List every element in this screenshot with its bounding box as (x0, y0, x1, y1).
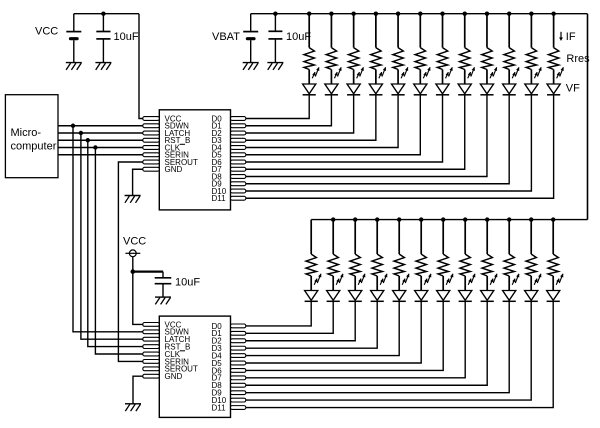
junction micro LATCH branch (79, 131, 83, 135)
wire micro to U1 LATCH (58, 132, 143, 134)
junction rail2 / column 20 (bottom bank) (463, 217, 467, 221)
resistor R22 (Rres) (504, 254, 514, 276)
junction rail2 / column 16 (bottom bank) (375, 217, 379, 221)
wire micro to U1 SERIN (58, 154, 143, 156)
pin U2.D3 (231, 346, 246, 350)
wire R9 to LED9 (486, 70, 488, 85)
pin U2.CLK (143, 352, 160, 356)
wire LED11 cathode to U1 D10 (246, 95, 532, 191)
resistor R19 (Rres) (438, 254, 448, 276)
wire R5 to LED5 (397, 70, 399, 85)
svg-text:10uF: 10uF (175, 276, 200, 288)
svg-text:computer: computer (11, 141, 57, 153)
wire LED23 cathode to U2 D10 (246, 301, 531, 400)
wire rail to C1 (102, 14, 104, 32)
resistor R9 (Rres) (482, 48, 492, 70)
svg-text:Micro-: Micro- (11, 127, 42, 139)
ground B2 (243, 63, 259, 70)
wire C3 to ground (162, 284, 164, 297)
wire rail2 to R23 (530, 220, 532, 255)
wire rail2 to R13 (310, 220, 312, 255)
pin U1.D11 (231, 196, 246, 200)
wire R16 to LED16 (376, 276, 378, 291)
wire R10 to LED10 (508, 70, 510, 85)
resistor R10 (Rres) (504, 48, 514, 70)
svg-text:VCC: VCC (35, 26, 58, 38)
resistor R21 (Rres) (482, 254, 492, 276)
pin U2.D8 (231, 383, 246, 387)
svg-text:IF: IF (566, 31, 576, 43)
ground B1 (66, 63, 82, 70)
wire LED9 cathode to U1 D8 (246, 95, 487, 177)
pin U2.D6 (231, 369, 246, 373)
junction rail / column 8 (top bank) (463, 12, 467, 16)
LED D4 (top bank) (369, 67, 386, 95)
wire LED3 cathode to U1 D2 (246, 95, 354, 133)
wire R11 to LED11 (530, 70, 532, 85)
capacitor C1 10uF (96, 32, 110, 39)
wire rail2 to R14 (332, 220, 334, 255)
wire R3 to LED3 (353, 70, 355, 85)
wire rail to R10 (508, 14, 510, 48)
svg-text:D11: D11 (212, 403, 227, 412)
wire rail2 to R16 (376, 220, 378, 255)
junction rail2 / column 14 (bottom bank) (331, 217, 335, 221)
resistor R12 (Rres) (548, 48, 558, 70)
wire VCC terminal to junction (132, 257, 134, 272)
junction rail2 / column 24 (bottom bank) (551, 217, 555, 221)
junction rail2 / column 18 (bottom bank) (419, 217, 423, 221)
wire rail2 to R15 (354, 220, 356, 255)
junction rail / column 9 (top bank) (485, 12, 489, 16)
resistor R16 (Rres) (372, 254, 382, 276)
wire micro LATCH to U2 LATCH (81, 133, 143, 339)
terminal VCC (U2) (125, 250, 140, 257)
wire LED18 cathode to U2 D5 (246, 301, 421, 363)
pin U1.SEROUT (143, 160, 160, 164)
ground C1 (95, 63, 111, 70)
wire R7 to LED7 (442, 70, 444, 85)
wire LED6 cathode to U1 D5 (246, 95, 420, 155)
resistor R20 (Rres) (460, 254, 470, 276)
wire rail to R8 (464, 14, 466, 48)
junction at VCC rail / C1 (101, 12, 105, 16)
junction micro CLK branch (93, 145, 97, 149)
pin U1.D9 (231, 182, 246, 186)
wire micro to U1 CLK (58, 147, 143, 149)
LED D17 (bottom bank) (393, 274, 410, 302)
wire to C3 top plate (162, 272, 164, 278)
wire micro to U1 SDWN (58, 125, 143, 127)
ground C3 (155, 297, 171, 304)
ground U1 (125, 196, 141, 203)
wire U1 GND to ground (133, 169, 143, 195)
resistor R7 (Rres) (437, 48, 447, 70)
wire LED14 cathode to U2 D1 (246, 301, 333, 333)
LED D2 (top bank) (325, 67, 342, 95)
LED D13 (bottom bank) (305, 274, 322, 302)
junction rail / column 2 (top bank) (329, 12, 333, 16)
LED D15 (bottom bank) (349, 274, 366, 302)
junction rail / column 11 (top bank) (529, 12, 533, 16)
pin U2.SDWN (143, 330, 160, 334)
svg-text:VBAT: VBAT (212, 31, 240, 43)
wire R15 to LED15 (354, 276, 356, 291)
capacitor C2 10uF (268, 31, 282, 39)
wire LED17 cathode to U2 D4 (246, 301, 399, 355)
pin U1.GND (143, 167, 160, 171)
ground C2 (267, 63, 283, 70)
wire LED13 cathode to U2 D0 (246, 301, 311, 326)
driver IC U1 body (159, 110, 230, 210)
LED D5 (top bank) (391, 67, 408, 95)
pin U2.SERIN (143, 360, 160, 364)
svg-text:VCC: VCC (123, 235, 146, 247)
wire R2 to LED2 (330, 70, 332, 85)
pin U2.LATCH (143, 337, 160, 341)
wire rail2 to R19 (442, 220, 444, 255)
wire junction to C3 (133, 271, 163, 273)
wire micro to U1 RST_B (58, 139, 143, 141)
svg-text:Rres: Rres (566, 53, 590, 65)
LED D19 (bottom bank) (437, 274, 454, 302)
capacitor C3 10uF (155, 278, 172, 284)
resistor R8 (Rres) (460, 48, 470, 70)
junction rail / column 1 (top bank) (307, 12, 311, 16)
wire LED20 cathode to U2 D7 (246, 301, 465, 378)
resistor R13 (Rres) (306, 254, 316, 276)
svg-text:10uF: 10uF (114, 31, 139, 43)
junction rail / column 12 (top bank) (551, 12, 555, 16)
resistor R11 (Rres) (526, 48, 536, 70)
overline mark on U2 CLK (180, 350, 185, 352)
wire U1 SEROUT to U2 SERIN (118, 162, 142, 361)
pin U1.D6 (231, 160, 246, 164)
LED D10 (top bank) (503, 67, 520, 95)
junction rail / column 7 (top bank) (440, 12, 444, 16)
LED D1 (top bank) (303, 67, 320, 95)
pin U2.D7 (231, 376, 246, 380)
svg-text:D11: D11 (212, 194, 227, 203)
wire LED7 cathode to U1 D6 (246, 95, 443, 162)
wire LED16 cathode to U2 D3 (246, 301, 377, 348)
junction rail2 / column 17 (bottom bank) (397, 217, 401, 221)
wire R23 to LED23 (530, 276, 532, 291)
pin U2.D10 (231, 398, 246, 402)
wire VCC rail top-left (74, 13, 139, 15)
wire rail to R3 (353, 14, 355, 48)
ground U2 (125, 404, 141, 411)
LED D11 (top bank) (525, 67, 542, 95)
pin U2.GND (143, 374, 160, 378)
junction rail2 / column 15 (bottom bank) (353, 217, 357, 221)
junction VBAT rail / C2 (273, 12, 277, 16)
wire R22 to LED22 (508, 276, 510, 291)
pin U1.RST_B (143, 138, 160, 142)
resistor R15 (Rres) (350, 254, 360, 276)
resistor R3 (Rres) (348, 48, 358, 70)
pin U1.D7 (231, 167, 246, 171)
wire R19 to LED19 (442, 276, 444, 291)
wire rail to R6 (419, 14, 421, 48)
resistor R17 (Rres) (394, 254, 404, 276)
LED D12 (top bank) (547, 67, 564, 95)
pin U2.D0 (231, 324, 246, 328)
wire LED10 cathode to U1 D9 (246, 95, 509, 184)
LED D23 (bottom bank) (525, 274, 542, 302)
LED D14 (bottom bank) (327, 274, 344, 302)
junction rail2 / column 22 (bottom bank) (507, 217, 511, 221)
wire C1 to ground (102, 39, 104, 63)
overline mark on U1 CLK (180, 143, 185, 145)
pin U1.VCC (143, 117, 160, 121)
wire R1 to LED1 (308, 70, 310, 85)
wire rail to R4 (375, 14, 377, 48)
pin U1.D2 (231, 131, 246, 135)
junction rail2 / column 21 (bottom bank) (485, 217, 489, 221)
pin U2.D11 (231, 406, 246, 410)
resistor R23 (Rres) (526, 254, 536, 276)
wire rail to R5 (397, 14, 399, 48)
LED D16 (bottom bank) (371, 274, 388, 302)
junction rail / column 6 (top bank) (418, 12, 422, 16)
wire LED5 cathode to U1 D4 (246, 95, 398, 148)
wire LED21 cathode to U2 D8 (246, 301, 487, 385)
wire B1 to ground (73, 40, 75, 62)
wire VBAT rail (251, 13, 588, 15)
junction rail / column 3 (top bank) (351, 12, 355, 16)
wire rail to R2 (330, 14, 332, 48)
wire rail to C2 (274, 14, 276, 32)
pin U2.D2 (231, 339, 246, 343)
wire R6 to LED6 (419, 70, 421, 85)
resistor R14 (Rres) (328, 254, 338, 276)
junction VCC / C3 (131, 269, 136, 274)
wire rail to R7 (442, 14, 444, 48)
wire rail to R9 (486, 14, 488, 48)
wire micro CLK to U2 CLK (95, 148, 142, 355)
wire R21 to LED21 (486, 276, 488, 291)
LED D18 (bottom bank) (415, 274, 432, 302)
pin U1.SERIN (143, 153, 160, 157)
pin U2.D5 (231, 361, 246, 365)
pin U1.D8 (231, 175, 246, 179)
wire rail2 to R24 (552, 220, 554, 255)
resistor R2 (Rres) (326, 48, 336, 70)
LED D21 (bottom bank) (481, 274, 498, 302)
wire R12 to LED12 (553, 70, 555, 85)
wire VBAT rail right-edge drop (587, 14, 589, 220)
wire VBAT source to rail (250, 14, 252, 32)
wire micro SDWN to U2 SDWN (73, 126, 143, 332)
resistor R6 (Rres) (415, 48, 425, 70)
VBAT supply source B2 (243, 32, 258, 41)
resistor R1 (Rres) (304, 48, 314, 70)
wire LED12 cathode to U1 D11 (246, 95, 554, 198)
pin U2.D1 (231, 331, 246, 335)
resistor R4 (Rres) (371, 48, 381, 70)
pin U2.RST_B (143, 345, 160, 349)
wire LED24 cathode to U2 D11 (246, 301, 553, 407)
wire rail to R12 (553, 14, 555, 48)
wire rail to R1 (308, 14, 310, 48)
wire LED2 cathode to U1 D1 (246, 95, 332, 126)
pin U1.SDWN (143, 124, 160, 128)
junction rail / column 10 (top bank) (507, 12, 511, 16)
wire R14 to LED14 (332, 276, 334, 291)
pin U2.VCC (143, 323, 160, 327)
pin U2.D9 (231, 391, 246, 395)
pin U1.LATCH (143, 131, 160, 135)
wire LED4 cathode to U1 D3 (246, 95, 376, 140)
pin U1.D4 (231, 146, 246, 150)
resistor R24 (Rres) (548, 254, 558, 276)
driver IC U2 body (159, 316, 230, 417)
pin U2.SEROUT (143, 367, 160, 371)
junction rail / column 4 (top bank) (374, 12, 378, 16)
LED D7 (top bank) (436, 67, 453, 95)
junction rail2 / column 23 (bottom bank) (529, 217, 533, 221)
wire rail2 to R17 (398, 220, 400, 255)
wire R8 to LED8 (464, 70, 466, 85)
pin U1.D1 (231, 124, 246, 128)
pin U1.CLK (143, 146, 160, 150)
current label IF with down arrow (559, 31, 576, 43)
wire VCC rail to U1 VCC pin (139, 14, 143, 119)
wire rail2 to R20 (464, 220, 466, 255)
wire R24 to LED24 (552, 276, 554, 291)
wire LED8 cathode to U1 D7 (246, 95, 465, 169)
micro-computer block (5, 95, 58, 178)
LED D3 (top bank) (347, 67, 364, 95)
svg-text:VF: VF (566, 82, 580, 94)
wire rail2 to R21 (486, 220, 488, 255)
wire U2 GND to ground (133, 376, 143, 403)
LED D22 (bottom bank) (503, 274, 519, 302)
resistor R18 (Rres) (416, 254, 426, 276)
wire R18 to LED18 (420, 276, 422, 291)
resistor R5 (Rres) (393, 48, 403, 70)
LED D20 (bottom bank) (459, 274, 476, 302)
wire LED1 cathode to U1 D0 (246, 95, 309, 119)
wire micro RST_B to U2 RST_B (88, 140, 143, 346)
junction micro SDWN branch (71, 124, 75, 128)
LED D24 (bottom bank) (547, 274, 564, 302)
LED D8 (top bank) (458, 67, 475, 95)
junction micro RST_B branch (86, 138, 90, 142)
wire rail2 to R22 (508, 220, 510, 255)
LED D9 (top bank) (480, 67, 497, 95)
junction rail2 / column 19 (bottom bank) (441, 217, 445, 221)
wire LED19 cathode to U2 D6 (246, 301, 443, 370)
junction rail / column 5 (top bank) (396, 12, 400, 16)
wire VCC to U2 VCC pin (133, 272, 143, 325)
wire C2 to ground (274, 39, 276, 63)
wire R13 to LED13 (310, 276, 312, 291)
VCC supply source B1 (66, 32, 81, 41)
wire LED22 cathode to U2 D9 (246, 301, 509, 392)
wire rail2 to R18 (420, 220, 422, 255)
wire LED15 cathode to U2 D2 (246, 301, 355, 340)
pin U1.D5 (231, 153, 246, 157)
wire rail to R11 (530, 14, 532, 48)
wire B2 to ground (250, 40, 252, 62)
wire R20 to LED20 (464, 276, 466, 291)
pin U1.D10 (231, 189, 246, 193)
pin U1.D3 (231, 138, 246, 142)
wire R4 to LED4 (375, 70, 377, 85)
wire R17 to LED17 (398, 276, 400, 291)
LED D6 (top bank) (414, 67, 431, 95)
pin U1.D0 (231, 117, 246, 121)
pin U2.D4 (231, 354, 246, 358)
svg-text:GND: GND (165, 372, 183, 381)
svg-text:10uF: 10uF (286, 31, 311, 43)
wire VBAT rail second bank (311, 219, 587, 221)
wire VCC source to rail (73, 14, 75, 32)
svg-text:GND: GND (165, 165, 183, 174)
